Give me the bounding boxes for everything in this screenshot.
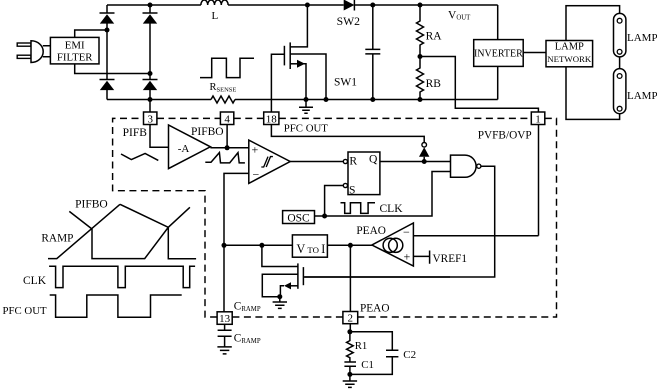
ground (Q2 source) <box>273 297 287 309</box>
waveform PFC OUT <box>3 295 182 317</box>
svg-text:INVERTER: INVERTER <box>474 49 523 60</box>
svg-text:OSC: OSC <box>287 212 310 224</box>
wire PEAO minus to pin1 <box>413 235 538 237</box>
transistor Q2 (ramp discharge) <box>262 245 450 299</box>
svg-text:VTOI: VTOI <box>297 242 326 256</box>
pin 4 <box>220 112 233 148</box>
svg-text:−: − <box>253 168 260 182</box>
pin 18 <box>264 112 425 143</box>
wire comparator out to R <box>290 161 343 163</box>
lamp network box <box>546 41 593 67</box>
wire ramp node <box>222 243 293 248</box>
svg-text:C2: C2 <box>403 349 416 361</box>
capacitor C2 <box>386 349 416 361</box>
svg-text:S: S <box>349 184 355 197</box>
svg-text:2: 2 <box>348 313 354 325</box>
svg-text:C1: C1 <box>361 359 374 371</box>
node C1 bottom / ground <box>343 372 357 388</box>
svg-text:CLK: CLK <box>23 275 47 287</box>
svg-text:L: L <box>212 10 219 22</box>
resistor R1 <box>347 332 368 362</box>
pin 2 <box>343 245 390 332</box>
svg-text:PIFB: PIFB <box>123 127 148 139</box>
VREF1 <box>413 251 467 266</box>
svg-text:SW1: SW1 <box>334 76 357 88</box>
wire RA-RB tap to pin 1 <box>420 57 538 113</box>
wire -A out to comparator <box>210 145 248 150</box>
svg-text:LAMP: LAMP <box>627 90 657 102</box>
svg-text:R1: R1 <box>355 340 368 352</box>
inverter box <box>474 40 547 67</box>
capacitor Cramp <box>218 324 261 347</box>
op-amp -A <box>169 125 211 169</box>
svg-text:NETWORK: NETWORK <box>547 54 592 64</box>
svg-text:−: − <box>403 225 410 239</box>
sawtooth icon PIFBO <box>205 153 245 163</box>
op-amp PEAO U5 <box>356 223 413 266</box>
inductor L <box>201 0 228 22</box>
svg-text:FILTER: FILTER <box>57 52 93 64</box>
pin 3 <box>123 100 169 148</box>
svg-text:+: + <box>252 143 259 157</box>
diode SW2 <box>337 0 361 28</box>
svg-text:EMI: EMI <box>65 39 85 51</box>
resistor RA <box>417 3 443 60</box>
svg-text:CLK: CLK <box>380 203 404 215</box>
svg-text:18: 18 <box>266 113 278 125</box>
capacitor C1 <box>344 359 374 374</box>
svg-text:1: 1 <box>535 113 541 125</box>
svg-text:RA: RA <box>426 31 443 43</box>
svg-text:LAMP: LAMP <box>627 32 657 44</box>
wire EMI filter to bridge <box>75 30 150 74</box>
waveform CLK <box>23 266 195 287</box>
wire comparator minus input <box>224 173 249 311</box>
EMI filter box <box>50 37 99 64</box>
svg-text:PVFB/OVP: PVFB/OVP <box>478 130 532 142</box>
V to I box <box>292 235 327 257</box>
comparator U2 <box>249 140 290 183</box>
node bridge junctions <box>105 3 153 103</box>
label Vout <box>448 10 471 22</box>
svg-text:-A: -A <box>178 143 190 155</box>
svg-text:PIFBO: PIFBO <box>75 199 108 211</box>
svg-text:3: 3 <box>147 113 153 125</box>
PIFB squiggle icon <box>121 153 158 160</box>
svg-text:PFC OUT: PFC OUT <box>3 305 48 317</box>
dashed controller box <box>113 118 557 317</box>
wire bottom rail <box>107 99 498 101</box>
gate drive waveform icon <box>200 58 254 77</box>
lamp 2 <box>614 69 657 114</box>
svg-text:4: 4 <box>224 113 230 125</box>
svg-text:R: R <box>349 154 357 167</box>
capacitor Cout <box>365 3 380 103</box>
svg-text:LAMP: LAMP <box>555 42 584 53</box>
waveform RAMP/PIFBO <box>41 199 196 259</box>
resistor RB <box>417 57 442 103</box>
svg-text:+: + <box>404 250 411 264</box>
ground (Cramp) <box>217 347 231 354</box>
svg-text:Q: Q <box>369 153 378 166</box>
diode D2 (bridge top-right) <box>143 5 158 74</box>
CLK icon <box>341 203 404 215</box>
pin 1 <box>478 112 545 236</box>
svg-text:VREF1: VREF1 <box>433 253 468 265</box>
OSC box <box>283 172 451 225</box>
svg-text:PEAO: PEAO <box>356 225 386 237</box>
wire V to I out / PEAO out <box>327 243 372 248</box>
ground (SW1 source) <box>299 100 313 114</box>
wire Q to NAND <box>380 159 451 164</box>
diode D3 (bridge bottom-left) <box>100 30 115 100</box>
svg-text:PIFBO: PIFBO <box>191 126 224 138</box>
NAND gate U4 <box>305 155 495 277</box>
svg-text:RAMP: RAMP <box>41 233 73 245</box>
resistor Rsense <box>210 82 237 103</box>
AC plug <box>17 41 50 63</box>
wire top rail <box>107 4 498 6</box>
svg-text:RB: RB <box>426 78 442 90</box>
diode D4 (bridge bottom-right) <box>143 74 158 100</box>
wire Vout to inverter <box>497 5 499 100</box>
lamp 1 <box>614 13 657 57</box>
svg-text:PFC OUT: PFC OUT <box>284 122 329 134</box>
svg-text:PEAO: PEAO <box>360 302 390 314</box>
node pin2 lower <box>347 329 392 374</box>
diode D1 (bridge top-left) <box>100 5 115 30</box>
pin 13 <box>217 301 261 326</box>
svg-text:13: 13 <box>219 313 231 325</box>
diode on Q line to PFC OUT <box>419 143 429 162</box>
flip-flop U3 <box>343 152 380 197</box>
label PIFBO <box>191 126 224 138</box>
svg-text:SW2: SW2 <box>337 15 361 28</box>
transistor SW1 <box>271 3 357 114</box>
lamp loop <box>566 6 620 120</box>
